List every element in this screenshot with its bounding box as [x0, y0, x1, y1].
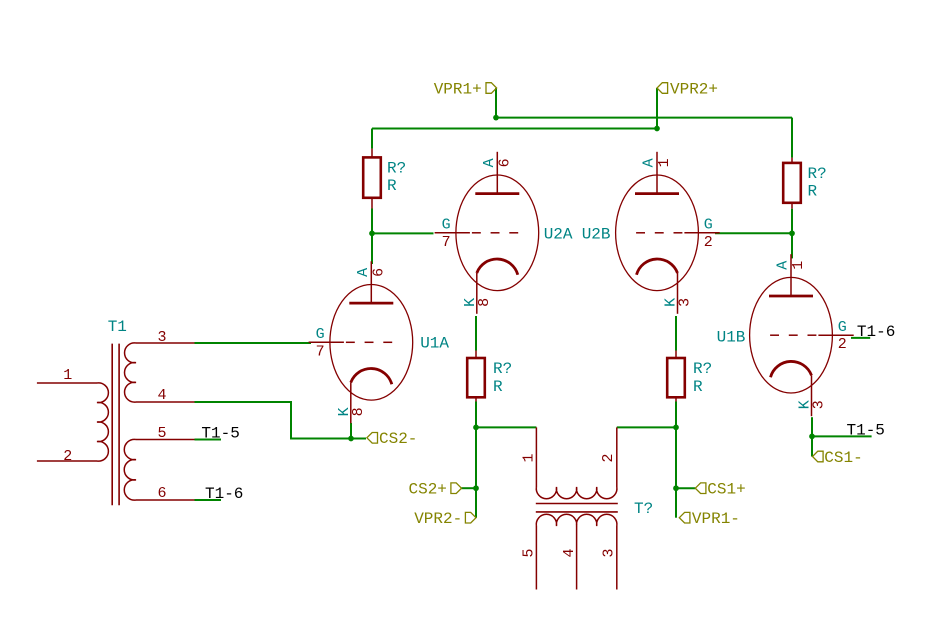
resistor R2 (U2A cathode) — [467, 351, 485, 402]
svg-text:5: 5 — [157, 425, 166, 442]
svg-text:4: 4 — [561, 548, 578, 557]
T1 secondary winding pin 5 — [136, 439, 195, 441]
triode U1B — [750, 254, 854, 416]
svg-text:U2B: U2B — [582, 225, 611, 243]
wire — [851, 337, 870, 339]
svg-text:6: 6 — [157, 485, 166, 502]
svg-text:6: 6 — [370, 268, 387, 277]
svg-text:5: 5 — [521, 548, 538, 557]
svg-text:3: 3 — [811, 400, 828, 409]
hierarchical label VPR2- — [465, 512, 476, 523]
svg-text:T?: T? — [634, 500, 653, 518]
svg-text:1: 1 — [790, 261, 807, 270]
junction VPR2+ rail — [654, 126, 660, 132]
T1 secondary winding pin 4 — [136, 401, 195, 403]
svg-text:CS1+: CS1+ — [707, 481, 745, 499]
transformer T1 — [112, 344, 119, 506]
junction VPR1+ rail — [493, 115, 499, 121]
wire — [791, 118, 793, 158]
wire — [371, 129, 373, 149]
svg-text:VPR1+: VPR1+ — [434, 80, 482, 98]
resistor R4 (U1B anode load) — [783, 158, 801, 209]
svg-text:CS2+: CS2+ — [409, 481, 447, 499]
svg-text:8: 8 — [350, 407, 367, 416]
svg-text:2: 2 — [600, 453, 617, 462]
wire — [715, 232, 792, 234]
hierarchical label CS2+ — [451, 483, 462, 494]
wire — [496, 117, 792, 119]
svg-text:2: 2 — [63, 448, 72, 465]
wire — [495, 88, 497, 118]
T? secondary pin 3 — [616, 526, 618, 590]
resistor R3 (U2B cathode) — [667, 351, 685, 402]
svg-text:7: 7 — [316, 343, 325, 360]
svg-text:R?: R? — [693, 360, 712, 378]
svg-text:VPR1-: VPR1- — [692, 510, 740, 528]
wire — [656, 88, 658, 129]
hierarchical label VPR2+ — [657, 83, 668, 94]
wire — [462, 487, 477, 489]
svg-text:R: R — [808, 183, 818, 201]
triode U1A — [309, 261, 413, 423]
junction node CS2- — [348, 436, 354, 442]
wire — [372, 128, 657, 130]
svg-text:R?: R? — [387, 160, 406, 178]
T1 primary winding pin 1 — [37, 382, 97, 384]
svg-text:1: 1 — [521, 453, 538, 462]
wire — [195, 402, 367, 439]
wire — [350, 423, 352, 439]
svg-text:T1-5: T1-5 — [201, 425, 239, 443]
wire — [675, 427, 677, 517]
junction node U1B anode — [789, 230, 795, 236]
svg-text:R: R — [387, 177, 397, 195]
svg-text:7: 7 — [442, 234, 451, 251]
junction node CS2+ — [473, 485, 479, 491]
svg-text:3: 3 — [677, 298, 694, 307]
hierarchical label CS1+ — [695, 483, 706, 494]
wire — [371, 209, 373, 265]
svg-text:CS1-: CS1- — [824, 449, 862, 467]
svg-text:6: 6 — [496, 158, 513, 167]
wire — [675, 316, 677, 351]
junction node T? pin1 — [473, 425, 479, 431]
wire — [195, 439, 222, 441]
svg-text:A: A — [641, 158, 658, 167]
T? secondary pin 4 (center tap) — [576, 526, 578, 590]
T1 primary winding loops — [97, 383, 108, 461]
svg-text:G: G — [838, 319, 847, 336]
wire — [811, 417, 813, 436]
svg-text:CS2-: CS2- — [379, 430, 417, 448]
hierarchical label VPR1- — [679, 512, 690, 523]
wire — [475, 402, 477, 428]
svg-text:VPR2+: VPR2+ — [670, 80, 718, 98]
svg-text:T1-6: T1-6 — [205, 485, 243, 503]
junction node CS1- — [809, 434, 815, 440]
T1 secondary B loops — [124, 439, 136, 500]
wire — [812, 435, 872, 437]
svg-text:1: 1 — [656, 158, 673, 167]
resistor R1 (U1A anode load) — [363, 149, 381, 209]
wire — [791, 209, 793, 259]
transformer T? — [536, 504, 618, 512]
T1 primary winding pin 2 — [37, 460, 97, 462]
triode U2A — [435, 152, 539, 314]
svg-text:1: 1 — [63, 367, 72, 384]
wire — [475, 427, 477, 517]
wire — [675, 402, 677, 428]
wire — [195, 499, 222, 501]
svg-text:R: R — [693, 378, 703, 396]
junction node U1A anode — [369, 231, 375, 237]
wire — [617, 426, 676, 428]
svg-text:R?: R? — [808, 165, 827, 183]
T1 secondary winding pin 6 — [136, 499, 195, 501]
svg-text:U1A: U1A — [420, 334, 449, 352]
svg-text:2: 2 — [704, 234, 713, 251]
svg-text:R: R — [493, 378, 503, 396]
T1 secondary A loops — [125, 343, 136, 402]
svg-text:A: A — [481, 158, 498, 167]
svg-text:A: A — [355, 268, 372, 277]
wire — [475, 316, 477, 351]
svg-text:VPR2-: VPR2- — [414, 510, 462, 528]
hierarchical label VPR1+ — [486, 83, 497, 94]
hierarchical label CS2- — [367, 433, 378, 444]
wire — [676, 487, 695, 489]
wire — [372, 232, 434, 234]
svg-text:T1-6: T1-6 — [857, 323, 895, 341]
T? primary pin 2 — [616, 427, 618, 487]
wire — [811, 436, 813, 456]
svg-text:A: A — [775, 261, 792, 270]
svg-text:2: 2 — [838, 336, 847, 353]
triode U2B — [616, 152, 720, 314]
wire — [195, 342, 312, 344]
junction node CS1+ — [673, 485, 679, 491]
svg-text:G: G — [704, 217, 713, 234]
T? primary loops — [536, 487, 617, 499]
svg-text:T1-5: T1-5 — [847, 421, 885, 439]
T? secondary pin 5 — [535, 526, 537, 590]
hierarchical label CS1- — [813, 451, 824, 462]
svg-text:3: 3 — [601, 548, 618, 557]
T? secondary loops — [536, 514, 617, 526]
svg-text:R?: R? — [493, 360, 512, 378]
svg-text:U2A: U2A — [544, 225, 573, 243]
wire — [476, 426, 536, 428]
svg-text:G: G — [316, 326, 325, 343]
svg-text:4: 4 — [157, 387, 166, 404]
T1 secondary winding pin 3 — [136, 342, 195, 344]
svg-text:8: 8 — [476, 298, 493, 307]
svg-text:U1B: U1B — [717, 329, 746, 347]
svg-text:G: G — [442, 217, 451, 234]
junction node T? pin2 — [673, 425, 679, 431]
svg-text:T1: T1 — [108, 318, 127, 336]
svg-text:3: 3 — [157, 329, 166, 346]
T? primary pin 1 — [535, 427, 537, 487]
